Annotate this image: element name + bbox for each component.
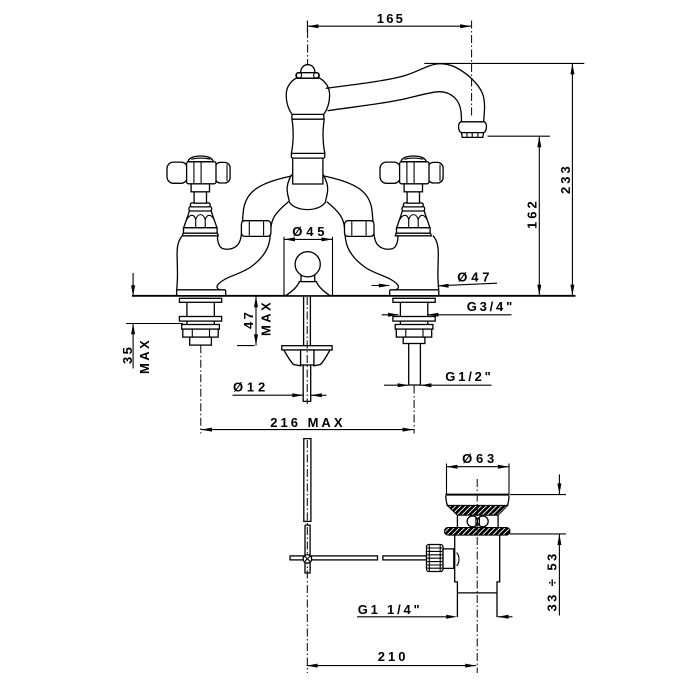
bridge arch left arm — [217, 176, 292, 291]
pop-up knob neck — [301, 276, 315, 282]
right washer C — [395, 325, 433, 330]
dim Ø45 (pop-up knob escutcheon) — [284, 224, 333, 296]
right supply tube G1/2 — [409, 344, 421, 386]
left collar — [190, 337, 212, 345]
centerline right valve axis — [413, 386, 415, 434]
pop-up knob cone — [286, 282, 331, 296]
svg-text:G1/2": G1/2" — [445, 369, 493, 384]
faucet centre column (spout base) — [286, 65, 329, 184]
deck line — [132, 295, 576, 297]
lower ring band — [291, 153, 324, 158]
right handle & bonnet — [380, 156, 443, 236]
left shank — [187, 302, 214, 316]
finial collar — [296, 73, 319, 79]
rod guide wings — [284, 350, 330, 366]
handle stem — [194, 192, 206, 203]
centerline lift rod (above) — [306, 297, 308, 404]
lift rod upper section — [304, 297, 311, 346]
dim Ø63 (waste flange) — [447, 451, 510, 494]
lift rod lower section — [303, 365, 311, 401]
right hex locknut — [396, 329, 431, 337]
svg-text:165: 165 — [377, 11, 405, 26]
onion bulb body — [286, 78, 329, 114]
centerline left valve axis — [200, 345, 202, 433]
dim 47 MAX (deck thickness, centre) — [237, 296, 274, 346]
svg-text:MAX: MAX — [259, 300, 274, 336]
bell skirt — [184, 211, 217, 228]
svg-text:162: 162 — [525, 198, 540, 229]
arch hex nut right — [345, 221, 375, 237]
finial dome — [301, 65, 315, 73]
left washer C — [182, 325, 220, 330]
svg-text:210: 210 — [378, 649, 409, 664]
arch hex nut left — [241, 221, 271, 237]
handle cap dome — [401, 156, 426, 162]
svg-text:Ø45: Ø45 — [292, 224, 328, 239]
drain pull rod — [304, 439, 311, 573]
svg-text:Ø63: Ø63 — [462, 451, 498, 466]
bonnet collar rings — [402, 207, 425, 211]
horizontal lever bar — [290, 556, 427, 560]
centerline spout outlet axis (165 right extension) — [471, 21, 473, 119]
tapered neck — [291, 119, 324, 153]
handle right wing — [215, 162, 230, 183]
waste lower clamp ring (hatched) — [444, 528, 510, 536]
handle left wing — [167, 162, 187, 183]
spout aerator — [462, 133, 484, 138]
handle cap dome — [188, 156, 213, 162]
waste funnel sides — [446, 496, 509, 506]
waste side port — [443, 549, 454, 569]
left handle & bonnet — [167, 156, 230, 236]
svg-text:Ø12: Ø12 — [233, 379, 269, 394]
waste tailpipe G1 1/4 — [457, 593, 497, 617]
label G1 1/4" (waste thread) — [357, 602, 513, 619]
right washer A — [393, 298, 435, 302]
dim Ø47 (valve body base) — [372, 270, 498, 288]
waste flange (section, hatched) — [447, 505, 508, 515]
bridge arch right arm — [324, 176, 399, 291]
waste top rim — [446, 494, 510, 496]
svg-text:G1 1/4": G1 1/4" — [358, 602, 423, 617]
rod guide flange plate — [282, 346, 332, 350]
right shank segment — [400, 321, 427, 324]
waste plug carrier — [457, 515, 498, 527]
right collar — [403, 337, 425, 343]
svg-text:MAX: MAX — [137, 338, 152, 374]
centerline drain rod — [306, 440, 308, 673]
svg-text:G3/4": G3/4" — [467, 299, 515, 314]
bell base band — [397, 228, 431, 233]
central ball joint bulge — [287, 175, 328, 210]
left washer A — [179, 298, 221, 302]
handle hub — [400, 162, 429, 184]
svg-text:233: 233 — [558, 163, 573, 194]
right valve body — [390, 236, 439, 296]
svg-text:33 ÷ 53: 33 ÷ 53 — [545, 551, 560, 611]
left valve body — [177, 236, 226, 296]
column cylinder — [293, 158, 323, 184]
handle left wing — [380, 162, 400, 183]
bonnet collar rings — [189, 207, 212, 211]
handle hub — [187, 162, 216, 184]
svg-text:35: 35 — [120, 345, 135, 364]
dim 165 (top, spout reach) — [307, 11, 471, 32]
right shank — [400, 302, 427, 316]
label G3/4" (shank thread) — [382, 299, 515, 317]
dim 233 (overall height, right) — [424, 63, 584, 295]
bell base band — [184, 228, 218, 233]
spout tube — [326, 64, 485, 122]
right washer B — [393, 317, 435, 322]
centerline faucet column axis (165 left extension) — [307, 30, 309, 172]
waste body — [455, 535, 500, 593]
label G1/2" (supply inlet thread) — [384, 369, 494, 387]
svg-text:Ø47: Ø47 — [457, 270, 493, 285]
dim 210 (rod to waste distance) — [307, 649, 477, 667]
left hex locknut — [183, 329, 218, 337]
dim 162 (spout outlet height) — [488, 136, 550, 295]
lever clamp screw — [303, 555, 312, 564]
left base flange — [177, 290, 226, 296]
left shank segment — [187, 321, 214, 324]
dim 33÷53 (clamping range, right of waste) — [510, 474, 566, 615]
svg-text:47: 47 — [241, 310, 256, 329]
right base flange — [390, 290, 439, 296]
dim 216 MAX (handle centres) — [201, 415, 414, 432]
bell skirt — [397, 211, 430, 228]
dim 35 MAX (deck thickness, left) — [120, 273, 183, 374]
centerline waste axis — [476, 479, 478, 673]
upper ring band — [292, 114, 324, 119]
spout end bead ring — [459, 122, 487, 133]
svg-text:216 MAX: 216 MAX — [270, 415, 345, 430]
dim Ø12 (lift rod) — [233, 379, 327, 397]
waste knurled nut — [427, 545, 444, 572]
handle stem — [407, 192, 419, 203]
pop-up knob ball — [295, 252, 320, 277]
handle right wing — [428, 162, 443, 183]
left washer B — [179, 317, 221, 322]
